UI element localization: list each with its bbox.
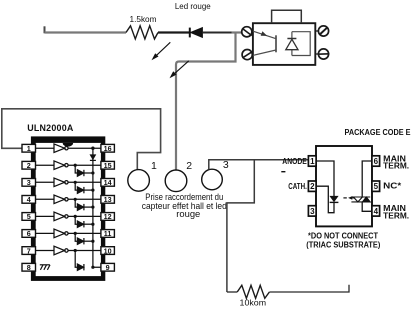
annotation arrow 1 (to led wire) — [152, 42, 171, 60]
svg-text:TERM.: TERM. — [383, 162, 409, 171]
output diode loop inside optocoupler — [292, 32, 310, 56]
svg-text:Led rouge: Led rouge — [175, 1, 211, 11]
svg-text:10: 10 — [104, 246, 112, 255]
optocoupler mounting tab — [272, 10, 302, 23]
wire: top supply rail to resistor — [45, 31, 127, 33]
clamp diode channel 5 — [74, 215, 95, 228]
U3 pin box 4 — [372, 206, 380, 216]
pin box 6 — [22, 229, 36, 238]
clamp diode channel 1 (on COM rail, pointing down) — [90, 154, 97, 160]
clamp diode channel 2 — [74, 164, 95, 177]
common (COM) rail to pin 9 — [93, 148, 101, 267]
pin box 12 — [101, 212, 115, 221]
caption: Prise raccordement du capteur effet hall et led rouge — [142, 191, 227, 219]
U3 pin box 6 — [372, 156, 380, 166]
svg-text:16: 16 — [104, 144, 112, 153]
ground / substrate hatch near pin 8 — [40, 265, 50, 270]
U3 pin box 5 — [372, 181, 380, 191]
svg-text:2: 2 — [186, 160, 192, 172]
optocoupler U2 body — [253, 23, 315, 65]
buffer channel row 1 (pin1 to pin16) — [36, 144, 101, 153]
pin box 9 — [101, 263, 115, 272]
svg-text:4: 4 — [27, 195, 31, 204]
svg-text:12: 12 — [104, 212, 112, 221]
label MAIN TERM. (pin 6) — [383, 154, 409, 170]
wire: segment to terminal screw — [232, 31, 242, 33]
buffer channel row 7 (pin7 to pin10) — [36, 246, 101, 255]
svg-text:7: 7 — [27, 246, 31, 255]
wire: branch from rail down and left to connector pin 2 — [176, 33, 236, 171]
wire: branch down to 10kom resistor — [227, 160, 254, 292]
wire: ULN pin 1 loop to connector pin 1 — [2, 109, 161, 170]
svg-text:1: 1 — [27, 144, 31, 153]
svg-text:1: 1 — [310, 157, 315, 166]
svg-text:8: 8 — [27, 263, 31, 272]
annotation arrow 2 (to connector wire) — [170, 61, 189, 79]
svg-text:2: 2 — [27, 161, 31, 170]
svg-text:15: 15 — [104, 161, 112, 170]
svg-text:6: 6 — [27, 229, 31, 238]
buffer channel row 5 (pin5 to pin12) — [36, 212, 101, 221]
clamp diode channel 4 — [74, 198, 95, 211]
svg-text:5: 5 — [374, 182, 379, 191]
clamp diode channel 3 — [74, 181, 95, 194]
U3 pin box 3 — [308, 206, 316, 216]
svg-text:5: 5 — [27, 212, 31, 221]
svg-text:6: 6 — [374, 157, 379, 166]
resistor R1 1.5kom — [126, 26, 158, 39]
svg-text:10kom: 10kom — [240, 298, 267, 308]
svg-text:9: 9 — [106, 263, 110, 272]
pin box 2 — [22, 161, 36, 170]
U3 internal wire pin2 to LED cathode — [316, 186, 334, 213]
opto-triac U3 package body — [316, 146, 372, 226]
buffer channel row 6 (pin6 to pin11) — [36, 229, 101, 238]
diode D1 (led rouge) cathode bar — [189, 28, 191, 38]
svg-text:3: 3 — [310, 207, 315, 216]
U3 internal wire pin1 to LED — [316, 161, 334, 196]
wire: diode to optocoupler terminal 1 — [202, 32, 231, 34]
buffer channel row 2 (pin2 to pin15) — [36, 161, 101, 170]
pin box 1 — [22, 144, 36, 153]
pin box 7 — [22, 246, 36, 255]
buffer channel row 4 (pin4 to pin13) — [36, 195, 101, 204]
wire: bottom left segment — [227, 291, 237, 293]
svg-text:PACKAGE CODE E: PACKAGE CODE E — [345, 128, 411, 137]
svg-text:11: 11 — [104, 229, 112, 238]
svg-text:4: 4 — [374, 207, 379, 216]
svg-text:*DO NOT CONNECT: *DO NOT CONNECT — [308, 231, 378, 240]
wire: connector pin 3 to MOC pin 1 (ANODE) — [209, 160, 309, 170]
connector socket circle 3 — [202, 169, 223, 190]
output diode symbol (cathode bar and triangle) — [286, 39, 298, 50]
svg-text:(TRIAC SUBSTRATE): (TRIAC SUBSTRATE) — [306, 241, 380, 250]
connector socket circle 2 — [165, 170, 187, 192]
wire: resistor to right end with tick — [269, 285, 349, 292]
label minus — [281, 171, 285, 173]
buffer channel row 3 (pin3 to pin14) — [36, 178, 101, 187]
svg-text:1.5kom: 1.5kom — [130, 14, 157, 24]
svg-text:2: 2 — [310, 182, 315, 191]
U3 internal LED (triangle down + bar) — [329, 196, 338, 203]
svg-text:3: 3 — [223, 159, 229, 171]
U3 pin box 2 — [308, 181, 316, 191]
pin box 8 — [22, 263, 36, 272]
screw terminal top-left — [242, 27, 252, 37]
clamp diode channel 7 (on pin 9 line) — [74, 249, 95, 271]
IC U1 ULN2000A body (black DIP outline) — [31, 136, 105, 281]
phototransistor inside optocoupler — [253, 31, 276, 55]
connector socket circle 1 — [128, 170, 150, 192]
U3 pin box 1 — [308, 156, 316, 166]
screw terminal top-right — [315, 26, 328, 36]
svg-text:TERM.: TERM. — [383, 211, 409, 220]
screw terminal bottom-left — [242, 50, 252, 60]
pin box 4 — [22, 195, 36, 204]
pin box 15 — [101, 161, 115, 170]
pin box 10 — [101, 246, 115, 255]
diode D1 (led rouge) triangle — [191, 28, 203, 38]
pin box 16 — [101, 144, 115, 153]
pin box 3 — [22, 178, 36, 187]
resistor R2 10kom — [237, 285, 269, 298]
U3 light arrow (toward LED) — [343, 196, 354, 200]
pin box 5 — [22, 212, 36, 221]
pin box 11 — [101, 229, 115, 238]
junction dot row1/COM — [91, 147, 94, 150]
U3 internal wire pin6 to triac — [362, 161, 372, 197]
svg-text:3: 3 — [27, 178, 31, 187]
pin box 13 — [101, 195, 115, 204]
svg-text:14: 14 — [104, 178, 112, 187]
U3 internal triac — [351, 197, 370, 202]
clamp diode channel 6 — [74, 232, 95, 245]
svg-text:NC*: NC* — [383, 182, 402, 191]
IC U1 notch — [63, 143, 74, 147]
U3 internal wire triac to pin4 — [362, 202, 372, 211]
wire: supply rail tick (left end) — [44, 26, 46, 33]
svg-text:13: 13 — [104, 195, 112, 204]
pin box 14 — [101, 178, 115, 187]
svg-text:ANODE: ANODE — [282, 157, 307, 166]
phototransistor collector arrowhead — [261, 31, 268, 36]
svg-text:1: 1 — [151, 160, 157, 172]
label MAIN TERM. (pin 4) — [383, 204, 409, 220]
wire: resistor to diode D1 — [158, 31, 190, 33]
svg-text:ULN2000A: ULN2000A — [27, 123, 74, 133]
svg-text:CATH.: CATH. — [288, 182, 307, 191]
screw terminal bottom-right — [315, 49, 329, 59]
svg-text:rouge: rouge — [176, 208, 200, 219]
